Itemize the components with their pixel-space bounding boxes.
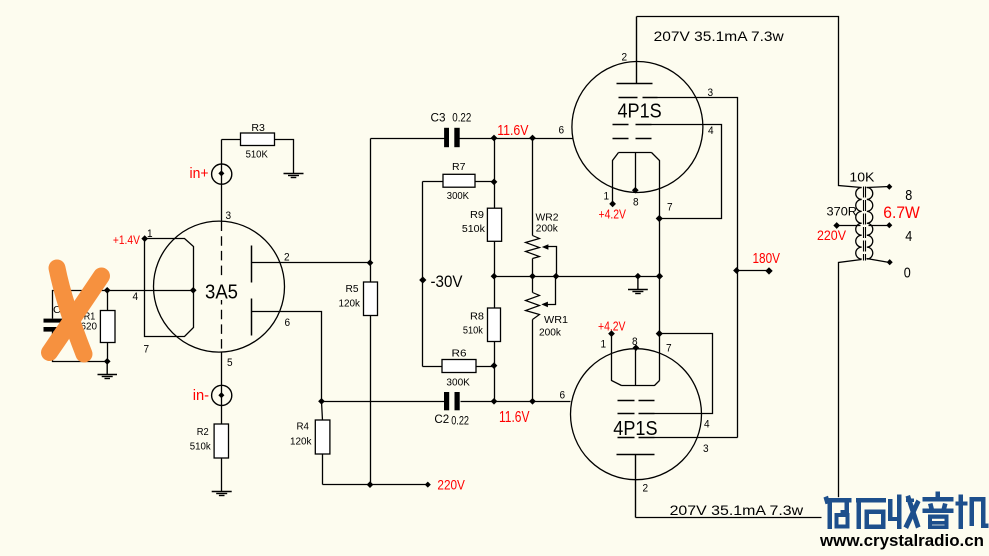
svg-text:4: 4 — [708, 125, 714, 137]
svg-text:-30V: -30V — [431, 273, 463, 291]
svg-text:4: 4 — [704, 419, 710, 431]
svg-text:0.22: 0.22 — [452, 112, 471, 124]
wire bottom rail (pin6 junction to C2 to bottom tube grid 6) — [322, 401, 571, 403]
pentode V3 4P1S (bottom) envelope — [571, 349, 702, 480]
svg-text:11.6V: 11.6V — [497, 122, 528, 139]
V3 pin 7 dot — [656, 330, 663, 337]
pin 3 wire (top, to in+) — [221, 140, 223, 222]
junction V2 pin7 / grid4 loop — [656, 215, 663, 222]
svg-text:1: 1 — [601, 339, 607, 351]
connector in- — [193, 385, 232, 405]
-30V net terminal dot — [419, 276, 426, 283]
svg-text:3: 3 — [708, 87, 714, 99]
svg-text:C2: C2 — [434, 414, 449, 426]
svg-text:207V 35.1mA 7.3w: 207V 35.1mA 7.3w — [654, 28, 785, 44]
220V terminal dot — [425, 482, 431, 488]
junction R9 bottom on rail — [491, 273, 498, 280]
V1 filament box (pins 1-7) — [145, 239, 194, 337]
V2 pin 8 dot — [632, 187, 639, 194]
V3 grid 6 dashes — [618, 400, 655, 402]
wire C1 top to node A — [53, 291, 108, 319]
potentiometer WR1 — [526, 277, 569, 401]
svg-text:5: 5 — [227, 357, 233, 369]
V2 pin 1 dot — [609, 201, 616, 208]
svg-text:220V: 220V — [437, 477, 465, 493]
svg-text:6: 6 — [559, 125, 565, 137]
junction R7 right / R9 line — [491, 179, 498, 186]
svg-text:220V: 220V — [817, 228, 846, 243]
wire pin7 line down to rail and to V3 pin 7 — [659, 219, 661, 381]
V3 grid 4 dashes — [618, 413, 655, 415]
wire 220V bottom rail — [323, 484, 428, 486]
pin 4 junction dot on filament — [190, 287, 197, 294]
wire screen rail down to V3 grid 3 — [737, 271, 739, 438]
svg-text:R3: R3 — [251, 123, 265, 134]
transformer T1 primary winding — [856, 188, 862, 260]
220V tap terminal dot — [833, 222, 840, 229]
svg-text:120k: 120k — [339, 299, 361, 310]
wire node A to 3A5 pin 4 — [108, 290, 194, 292]
svg-text:+1.4V: +1.4V — [113, 233, 140, 247]
svg-text:2: 2 — [622, 52, 628, 64]
V3 pin 8 dot — [633, 344, 640, 351]
svg-text:510k: 510k — [462, 224, 485, 235]
svg-text:in-: in- — [193, 387, 209, 404]
svg-text:8: 8 — [632, 336, 638, 348]
junction pin6/R4/rail — [318, 398, 325, 405]
wire top B+ rail to transformer — [637, 17, 862, 188]
3A5 label — [201, 277, 243, 304]
resistor R4 — [290, 402, 330, 485]
V2 grid 4 (dashes + wire looped to pin 7) — [613, 124, 652, 126]
wire in+ to R3 — [222, 139, 241, 141]
wire -30V feedback vertical — [422, 182, 424, 367]
V1 plate pin 2 electrode — [251, 246, 253, 283]
3A5 center dashed line — [221, 222, 223, 353]
V2 plate electrode pin 2 — [617, 17, 653, 84]
V3 plate electrode pin 2 — [617, 455, 655, 518]
svg-text:R2: R2 — [197, 427, 209, 438]
svg-text:120k: 120k — [290, 437, 312, 448]
triode V1 3A5 envelope — [154, 221, 285, 352]
svg-text:200k: 200k — [539, 328, 561, 339]
svg-text:3: 3 — [226, 210, 232, 222]
transformer core — [864, 187, 866, 261]
hand-drawn X mark (orange) — [50, 268, 102, 354]
svg-text:7: 7 — [144, 344, 150, 356]
svg-text:WR1: WR1 — [544, 315, 568, 326]
resistor R3 — [241, 123, 275, 161]
secondary tap 4 wire — [869, 225, 890, 227]
logo character 收 — [888, 495, 921, 530]
ground under R3 — [284, 174, 304, 178]
wire C1 bottom to R1 bottom — [53, 332, 108, 362]
resistor R8 — [463, 277, 501, 401]
capacitor C3 — [431, 112, 472, 147]
ground under R2 — [212, 492, 232, 496]
svg-text:7: 7 — [666, 343, 672, 355]
V2 grid 3 (dashes + wire to screen rail) — [619, 97, 658, 99]
svg-text:R4: R4 — [297, 422, 310, 433]
svg-text:8: 8 — [633, 197, 639, 209]
svg-text:370R: 370R — [827, 205, 858, 219]
logo character 机 — [956, 495, 989, 530]
junction R5 bottom on 220V rail — [367, 481, 374, 488]
svg-text:WR2: WR2 — [536, 213, 559, 224]
svg-text:1: 1 — [147, 228, 153, 240]
svg-text:R8: R8 — [470, 312, 485, 323]
svg-text:2: 2 — [284, 252, 290, 264]
svg-text:3: 3 — [703, 443, 709, 455]
capacitor C2 — [434, 392, 469, 427]
svg-text:180V: 180V — [753, 250, 781, 267]
junction ground stub on rail — [635, 273, 642, 280]
resistor R2 — [190, 424, 229, 492]
ground under R1 — [98, 361, 118, 378]
svg-text:510k: 510k — [190, 442, 211, 453]
svg-text:2: 2 — [643, 483, 649, 495]
junction wiper tie on rail — [553, 273, 560, 280]
junction top rail / WR2 — [529, 135, 536, 142]
svg-text:3A5: 3A5 — [205, 282, 238, 304]
junction WR2 bottom on rail — [529, 273, 536, 280]
V2 grid 6 dashes — [613, 138, 652, 140]
resistor R5 (in anode feed line) — [339, 139, 378, 485]
logo character 石 — [856, 498, 886, 529]
wire pin 6 down to 220V rail — [252, 312, 322, 402]
wire 180V stub — [738, 270, 769, 272]
wire bottom B+ rail to transformer — [636, 260, 862, 518]
svg-text:0.22: 0.22 — [451, 415, 469, 427]
svg-text:4P1S: 4P1S — [618, 99, 662, 122]
V2 filament structure — [613, 153, 660, 219]
svg-text:6: 6 — [285, 317, 291, 329]
svg-text:C3: C3 — [431, 112, 446, 124]
svg-text:4: 4 — [905, 228, 912, 245]
potentiometer WR2 — [526, 139, 559, 277]
svg-text:in+: in+ — [190, 165, 209, 182]
secondary tap 8 wire — [867, 187, 890, 188]
svg-text:510K: 510K — [246, 150, 269, 161]
180V terminal dot — [765, 267, 772, 274]
logo character 音 — [923, 492, 954, 530]
resistor R1 — [81, 291, 116, 362]
svg-text:4: 4 — [133, 291, 139, 303]
svg-text:300K: 300K — [447, 191, 470, 202]
junction R8 bottom on bottom rail — [491, 398, 498, 405]
wire R3 to ground — [275, 140, 294, 174]
capacitor C1 — [44, 305, 68, 332]
V3 grid 3 (dashes + wire to screen rail) — [618, 437, 655, 439]
node A junction (C1/R1 top, to pin 4) — [104, 287, 111, 294]
svg-text:R5: R5 — [346, 284, 360, 295]
connector in+ — [190, 164, 232, 184]
secondary tap 0 wire — [867, 259, 890, 263]
svg-text:510k: 510k — [463, 326, 483, 337]
svg-text:6.7W: 6.7W — [883, 204, 920, 222]
wire V3 pin7 loop to grid 4 — [655, 334, 713, 414]
svg-text:R9: R9 — [470, 210, 484, 221]
wire center rail — [495, 276, 660, 278]
svg-text:1: 1 — [604, 191, 610, 203]
V3 pin 1 dot — [608, 330, 615, 337]
svg-text:R6: R6 — [452, 349, 468, 360]
220V primary tap wire — [837, 225, 861, 227]
svg-text:6: 6 — [560, 390, 566, 402]
transformer T1 secondary winding — [867, 188, 873, 260]
svg-text:7: 7 — [667, 202, 673, 214]
svg-text:R7: R7 — [452, 162, 466, 173]
V1 electrode pin 6 — [251, 299, 253, 336]
pin 5 wire (bottom, to in-) — [221, 353, 223, 425]
svg-text:+4.2V: +4.2V — [599, 207, 627, 222]
junction WR1 bottom on bottom rail — [529, 398, 536, 405]
180V node junction — [733, 267, 740, 274]
svg-text:300K: 300K — [446, 378, 470, 389]
junction R1 bottom — [104, 358, 111, 365]
svg-text:11.6V: 11.6V — [499, 409, 530, 426]
pin 1 dot — [141, 235, 148, 242]
svg-text:8: 8 — [905, 187, 912, 204]
svg-text:4P1S: 4P1S — [613, 417, 657, 440]
junction C3/R9 node — [491, 135, 498, 142]
wire top rail (R5 top to C3 to top tube grid 6) — [371, 138, 573, 140]
resistor R7 — [423, 162, 495, 202]
junction R6 right / R8 line — [491, 362, 498, 369]
wire pin 2 to R5 node — [252, 262, 371, 264]
ground on center rail — [628, 276, 648, 293]
svg-text:207V 35.1mA 7.3w: 207V 35.1mA 7.3w — [670, 502, 805, 518]
svg-text:www.crystalradio.cn: www.crystalradio.cn — [819, 532, 984, 550]
svg-text:200k: 200k — [536, 224, 558, 235]
logo character 矿 — [824, 496, 852, 529]
svg-text:0: 0 — [904, 265, 911, 282]
resistor R9 — [462, 139, 502, 277]
junction rail end / pin7 line — [656, 273, 663, 280]
svg-text:10K: 10K — [849, 170, 874, 185]
V3 filament structure — [612, 334, 660, 386]
pentode V2 4P1S (top) envelope — [572, 62, 703, 193]
junction V1 pin2 / R5 — [367, 259, 374, 266]
resistor R6 — [423, 349, 495, 389]
svg-text:+4.2V: +4.2V — [598, 319, 626, 334]
logo background mask — [822, 497, 989, 550]
